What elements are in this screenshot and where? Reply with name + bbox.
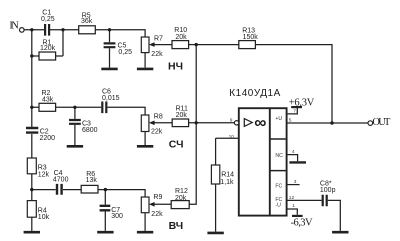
svg-text:0,015: 0,015 (102, 95, 120, 102)
svg-text:20k: 20k (175, 195, 187, 202)
svg-text:6800: 6800 (82, 127, 98, 134)
svg-text:100p: 100p (320, 187, 336, 194)
svg-text:9: 9 (230, 118, 233, 124)
svg-text:5: 5 (289, 117, 292, 123)
svg-text:∞: ∞ (254, 113, 266, 132)
svg-text:+U: +U (275, 116, 282, 122)
svg-text:R8: R8 (154, 113, 163, 120)
svg-text:0,25: 0,25 (41, 16, 55, 23)
svg-text:20k: 20k (176, 112, 188, 119)
svg-text:10: 10 (229, 134, 235, 140)
svg-text:1,1k: 1,1k (220, 179, 234, 186)
svg-text:4700: 4700 (53, 177, 69, 184)
svg-text:36k: 36k (81, 18, 93, 25)
svg-text:FC: FC (275, 184, 282, 190)
svg-text:150k: 150k (243, 34, 259, 41)
svg-text:10k: 10k (38, 214, 50, 221)
svg-text:2200: 2200 (40, 135, 56, 142)
svg-text:3: 3 (294, 179, 297, 185)
svg-text:22k: 22k (151, 51, 163, 58)
svg-text:20k: 20k (175, 34, 187, 41)
svg-text:12: 12 (289, 195, 295, 201)
svg-text:К140УД1А: К140УД1А (229, 88, 280, 99)
svg-text:43k: 43k (42, 97, 54, 104)
svg-text:22k: 22k (151, 211, 163, 218)
svg-text:NC: NC (275, 153, 283, 159)
svg-text:IN: IN (9, 21, 19, 32)
svg-text:R7: R7 (154, 36, 163, 43)
svg-text:1: 1 (292, 203, 295, 209)
svg-text:+6,3V: +6,3V (289, 97, 315, 108)
svg-text:4: 4 (292, 149, 295, 155)
svg-text:300: 300 (111, 213, 123, 220)
svg-text:0,25: 0,25 (118, 49, 132, 56)
svg-text:R9: R9 (153, 194, 162, 201)
svg-text:НЧ: НЧ (168, 60, 183, 72)
svg-text:7: 7 (293, 109, 296, 115)
svg-text:12k: 12k (38, 171, 50, 178)
svg-text:-U: -U (275, 202, 281, 208)
svg-text:22k: 22k (151, 128, 163, 135)
svg-text:120k: 120k (40, 45, 56, 52)
svg-text:R14: R14 (221, 172, 234, 179)
svg-text:OUT: OUT (372, 117, 391, 128)
svg-text:ВЧ: ВЧ (169, 220, 184, 232)
svg-text:СЧ: СЧ (169, 138, 184, 150)
svg-text:13k: 13k (86, 177, 98, 184)
svg-text:-6,3V: -6,3V (291, 217, 313, 228)
